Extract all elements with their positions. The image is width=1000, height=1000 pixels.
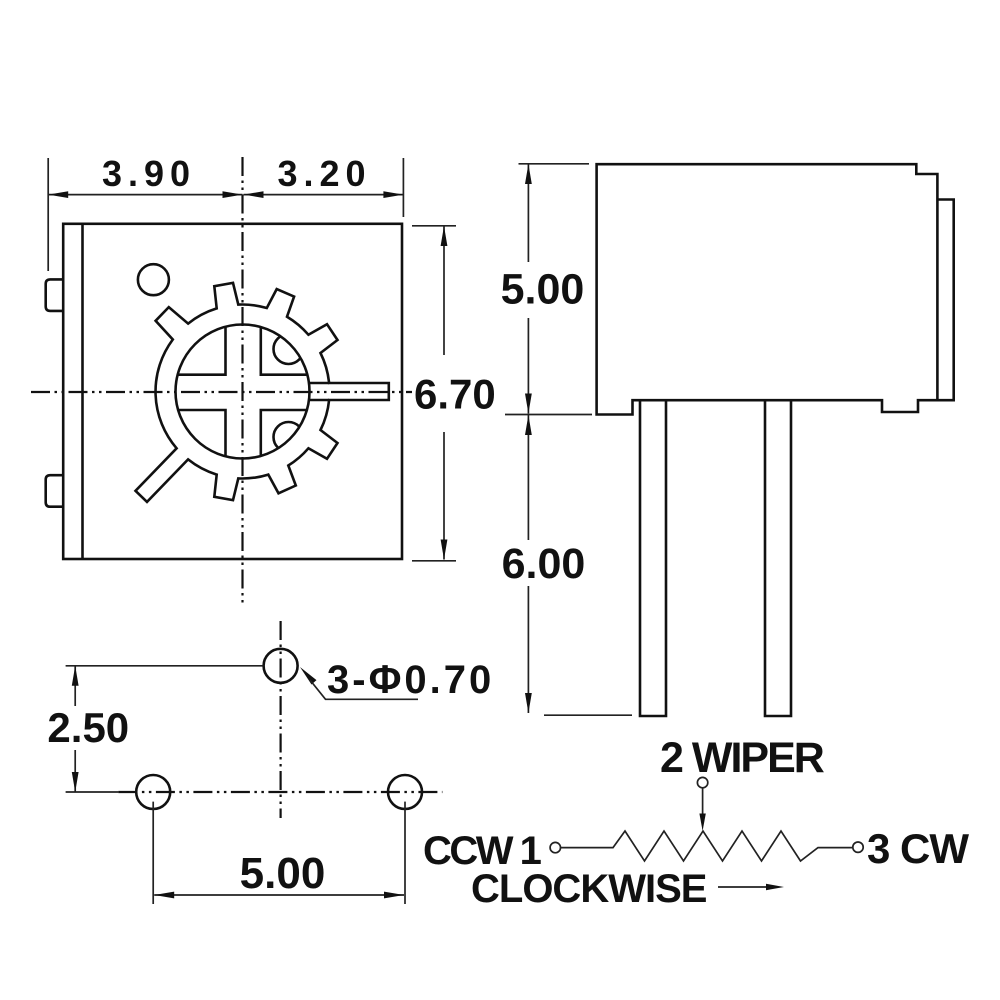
- cross slot SW corner: [178, 410, 225, 456]
- dim 5.00 bottom ext left: [152, 802, 154, 904]
- svg-text:3 CW: 3 CW: [867, 825, 969, 872]
- hole pin 3 (bottom right): [388, 775, 422, 809]
- dim line 3.20: [244, 194, 404, 196]
- hole pin 1 (bottom left): [136, 775, 170, 809]
- dim 3.90 extension line left: [47, 158, 49, 271]
- svg-text:2 WIPER: 2 WIPER: [660, 734, 825, 782]
- lead pin 2 (right): [765, 401, 791, 717]
- dim mid extension: [505, 414, 592, 416]
- dim line 6.70 vertical: [443, 226, 445, 355]
- lower left mounting tab: [46, 475, 64, 507]
- vertical centerline: [241, 157, 243, 605]
- hole pin 2 (top): [264, 649, 298, 683]
- svg-text:6.70: 6.70: [414, 371, 496, 418]
- cross slot SE corner: [261, 410, 307, 456]
- resistor zigzag R1: [561, 831, 853, 861]
- svg-text:5.00: 5.00: [240, 849, 326, 898]
- rotor dimple SE: [274, 422, 304, 452]
- rotor dimple NE: [274, 334, 304, 364]
- body outline square: [63, 224, 402, 559]
- dim 5.00 extension top: [519, 163, 590, 165]
- rotor inner circle: [176, 325, 310, 459]
- bottom left reference line: [66, 791, 119, 793]
- top hole reference line: [66, 665, 264, 667]
- svg-text:3-Φ0.70: 3-Φ0.70: [327, 658, 494, 702]
- dim 6.00 line: [527, 415, 529, 540]
- dim line 3.90: [48, 194, 242, 196]
- terminal circle pin1: [550, 842, 560, 852]
- slot lines through annulus: [309, 382, 329, 385]
- svg-text:5.00: 5.00: [501, 266, 585, 314]
- horizontal centerline through bottom holes: [118, 791, 442, 793]
- dim 5.00 line: [527, 164, 529, 262]
- upper left mounting tab: [46, 279, 64, 311]
- cross slot NW corner: [178, 327, 226, 375]
- dim 6.70 extension top: [412, 225, 456, 227]
- dim 5.00 bottom line: [154, 894, 404, 896]
- horizontal centerline: [31, 391, 412, 393]
- leader 3-dia0.70: [300, 667, 317, 685]
- rotor gear outline with teeth: [136, 283, 389, 502]
- lead pin 1 (left): [640, 401, 666, 717]
- side body outline: [597, 164, 938, 414]
- rotor gear annulus fill (covers dimple overflow): [136, 283, 389, 502]
- body inner left line: [81, 224, 84, 559]
- dim 5.00 bottom ext right: [404, 802, 406, 904]
- svg-text:6.00: 6.00: [502, 540, 586, 588]
- vertical centerline through top hole: [280, 621, 282, 818]
- dim 3.20 extension line right: [402, 158, 404, 217]
- wiper line with arrow: [702, 788, 704, 818]
- terminal circle pin3: [853, 842, 863, 852]
- small index hole: [138, 264, 169, 295]
- side rear plate: [937, 200, 953, 401]
- dim 2.50 line: [74, 666, 76, 706]
- svg-text:2.50: 2.50: [47, 704, 129, 751]
- cross slot NE corner: [261, 327, 308, 375]
- svg-text:3.20: 3.20: [277, 153, 371, 194]
- dim 6.70 extension bottom: [412, 560, 456, 562]
- dim bottom extension: [544, 714, 632, 716]
- wiper terminal circle: [697, 777, 707, 787]
- clockwise arrow: [718, 886, 770, 888]
- svg-text:CLOCKWISE: CLOCKWISE: [471, 867, 707, 911]
- svg-text:3.90: 3.90: [102, 153, 196, 194]
